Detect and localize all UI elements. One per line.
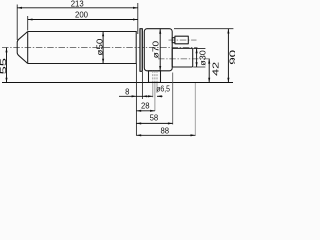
svg-text:ø6,5: ø6,5 [156,83,170,93]
svg-text:58: 58 [150,113,159,123]
svg-text:ø30: ø30 [198,50,208,66]
svg-text:90: 90 [227,49,235,65]
svg-text:8: 8 [125,86,130,96]
svg-text:ø70: ø70 [151,40,161,58]
svg-text:55: 55 [0,57,8,74]
svg-text:42: 42 [211,61,221,75]
svg-text:ø50: ø50 [94,38,104,55]
svg-text:28: 28 [141,100,150,110]
svg-text:200: 200 [75,9,88,19]
svg-text:88: 88 [161,126,170,136]
svg-text:213: 213 [71,0,84,9]
